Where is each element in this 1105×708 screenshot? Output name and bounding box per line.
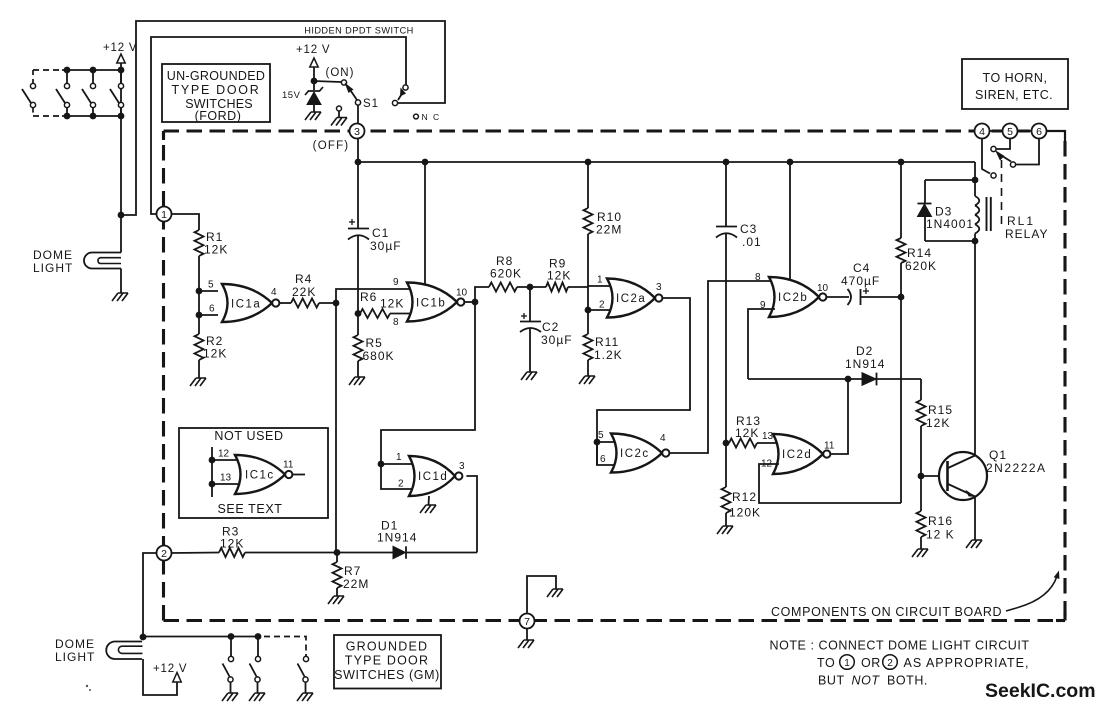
svg-text:3: 3 — [459, 461, 465, 472]
DPDT pole-2 blade — [398, 88, 406, 101]
svg-text:5: 5 — [208, 280, 214, 291]
svg-text:12K: 12K — [203, 347, 227, 361]
wire lamp2 to +12V — [143, 659, 177, 695]
svg-text:5: 5 — [598, 430, 604, 441]
label S1 — [363, 98, 379, 110]
wire bus corner to coil — [974, 162, 976, 180]
note line 3 — [818, 674, 928, 688]
wire R5 to ground — [357, 361, 359, 377]
label pin 10 IC2b — [817, 283, 829, 294]
wire pin13 stub — [212, 483, 244, 485]
junction dots bus bottom — [64, 113, 125, 120]
wire to ON contact — [314, 81, 341, 82]
svg-text:12: 12 — [218, 449, 230, 460]
wire IC1d out to D1 — [466, 476, 477, 553]
wire pin5 stub — [597, 441, 620, 443]
wire to DPDT outer run — [121, 21, 445, 215]
door switch GM-1 — [223, 637, 234, 694]
svg-text:IC2c: IC2c — [620, 448, 650, 460]
svg-text:RELAY: RELAY — [1005, 227, 1048, 241]
capacitor C2 — [520, 287, 541, 372]
svg-text:NOT: NOT — [852, 674, 881, 688]
ground R2 — [190, 378, 206, 386]
relay blade — [995, 150, 1011, 162]
DPDT pole-2 top contact — [403, 85, 408, 90]
svg-text:SIREN, ETC.: SIREN, ETC. — [975, 88, 1053, 102]
junction dot pin5 — [196, 288, 203, 295]
label NOT USED — [214, 429, 283, 443]
transistor Q1 — [939, 452, 987, 500]
svg-text:4: 4 — [271, 287, 277, 298]
label C4 470uF — [841, 261, 880, 288]
svg-text:RL1: RL1 — [1007, 214, 1035, 228]
wire R6node to R5 — [357, 314, 359, 336]
svg-text:4: 4 — [660, 433, 666, 444]
label SEE TEXT — [217, 502, 282, 516]
label 15V — [282, 90, 301, 101]
resistor R1 — [195, 230, 204, 256]
wire IC1b out up — [475, 287, 489, 302]
svg-text:R12: R12 — [732, 490, 757, 504]
svg-text:1: 1 — [161, 209, 167, 221]
ground Q1 emitter — [966, 540, 982, 548]
watermark SeekIC.com — [985, 680, 1096, 702]
label R1 12K — [204, 230, 228, 257]
label pin 5 IC2c — [598, 430, 604, 441]
door switch GM-3 — [298, 654, 309, 693]
wire R4node down to node2 line — [335, 303, 337, 553]
resistor R12 — [722, 487, 731, 513]
svg-text:IC1b: IC1b — [416, 298, 446, 310]
circuit board border left — [162, 131, 165, 621]
power +12V top left — [103, 42, 137, 215]
svg-text:LIGHT: LIGHT — [55, 650, 95, 664]
wire node4-5 — [990, 130, 1003, 132]
label RL1 RELAY — [1005, 214, 1048, 241]
svg-text:6: 6 — [209, 304, 215, 315]
junction dots on bus — [355, 159, 905, 166]
label D2 1N914 — [845, 344, 885, 371]
svg-text:470µF: 470µF — [841, 274, 880, 288]
junction dot bottom lamp — [140, 634, 147, 641]
wire Q1 emitter — [974, 497, 976, 541]
ground R16 — [912, 549, 928, 557]
label pin 1 IC1d — [396, 452, 402, 463]
wire IC1b output — [464, 301, 475, 303]
svg-text:C2: C2 — [542, 320, 559, 334]
op-amp gate IC1c — [235, 455, 292, 494]
svg-text:10: 10 — [817, 283, 829, 294]
svg-text:+12 V: +12 V — [103, 42, 137, 54]
svg-text:C1: C1 — [372, 226, 389, 240]
wire pin9 IC2b — [748, 309, 775, 379]
node 7 — [520, 614, 535, 629]
svg-text:30µF: 30µF — [370, 239, 402, 253]
wire door-switch bus top — [33, 69, 121, 71]
circuit board border top — [164, 129, 1047, 132]
diode D2 — [862, 373, 877, 386]
wire S1 to node 3 — [357, 105, 359, 124]
node 2 — [157, 546, 172, 561]
wire pin6 to R2 — [198, 315, 200, 334]
wire lamp to ground — [120, 269, 122, 294]
label pin 3 — [656, 282, 662, 293]
label TO HORN SIREN ETC — [975, 71, 1053, 102]
label pin 8 — [393, 317, 399, 328]
label pin 1 IC2a — [597, 275, 603, 286]
resistor R7 — [333, 562, 342, 588]
svg-text:COMPONENTS ON CIRCUIT BOARD: COMPONENTS ON CIRCUIT BOARD — [771, 605, 1002, 619]
svg-text:12K: 12K — [547, 269, 571, 283]
op-amp gate IC1b — [407, 283, 464, 322]
op-amp gate IC2c — [611, 434, 669, 473]
wire R11 ground — [587, 360, 589, 376]
label R15 12K — [926, 403, 953, 430]
label R2 12K — [203, 334, 227, 361]
label R4 22K — [292, 272, 316, 299]
wire pin 6 stub — [199, 314, 218, 316]
resistor R5 — [354, 335, 363, 361]
svg-text:12K: 12K — [380, 297, 404, 311]
svg-text:2: 2 — [599, 300, 605, 311]
wire blade contact to node6 — [1016, 139, 1039, 165]
note line 2 — [817, 655, 1029, 670]
svg-text:15V: 15V — [282, 90, 301, 101]
label R10 22M — [596, 210, 622, 237]
ground OFF contact — [331, 118, 347, 126]
junction dot IC1b out — [472, 299, 479, 306]
svg-text:8: 8 — [393, 317, 399, 328]
svg-text:DOME: DOME — [55, 637, 95, 651]
wire IC1a output — [279, 302, 291, 304]
dome light lamp top — [84, 253, 121, 269]
svg-text:1: 1 — [844, 658, 850, 669]
wire R12 ground — [725, 513, 727, 526]
wire pin 1 stub — [588, 285, 616, 287]
wire top bus — [358, 161, 975, 163]
svg-text:1N4001: 1N4001 — [926, 217, 974, 231]
svg-text:R5: R5 — [366, 336, 383, 350]
diode D1 — [393, 546, 406, 558]
svg-text:11: 11 — [824, 441, 835, 452]
svg-text:SEE TEXT: SEE TEXT — [217, 502, 282, 516]
wire base — [921, 475, 948, 477]
wire node2 to R3 — [172, 552, 220, 555]
wire pin1 stub — [381, 463, 418, 465]
wire R7 ground — [336, 588, 338, 596]
wire R8-R9 — [517, 286, 546, 288]
junction dot pin5 IC2c — [594, 439, 601, 446]
wire pin12 stub — [212, 459, 244, 461]
door switch SW-D — [110, 70, 124, 116]
svg-text:(FORD): (FORD) — [195, 109, 242, 123]
wire IC1b out down to IC1d — [381, 302, 475, 464]
svg-text:NOT USED: NOT USED — [214, 429, 283, 443]
ground GM-3 — [297, 693, 313, 701]
resistor R8 — [489, 283, 517, 292]
junction dot pin12 — [209, 457, 216, 464]
label pin 13 IC1c — [220, 473, 232, 484]
door switch SW-C — [82, 70, 96, 116]
junction dot R7 — [334, 549, 341, 556]
junction dot pin13 — [209, 481, 216, 488]
svg-text:120K: 120K — [729, 506, 761, 520]
wire bus drop to IC1b top — [424, 162, 426, 284]
svg-text:1: 1 — [597, 275, 603, 286]
ground IC1d — [420, 505, 436, 513]
ground GM-1 — [222, 693, 238, 701]
wire node7 up to ground — [527, 576, 556, 614]
label pin 12 IC1c — [218, 449, 230, 460]
ground GM-2 — [249, 693, 265, 701]
box GROUNDED TYPE DOOR SWITCHES — [334, 635, 441, 689]
label COMPONENTS ON CIRCUIT BOARD — [771, 605, 1002, 619]
svg-text:R15: R15 — [928, 403, 953, 417]
label pin 9 — [393, 277, 399, 288]
box TO HORN — [962, 59, 1068, 109]
svg-text:13: 13 — [220, 473, 232, 484]
label pin 4 IC2c — [660, 433, 666, 444]
wire IC1c input bar — [211, 447, 213, 497]
svg-text:1N914: 1N914 — [845, 357, 885, 371]
junction dot pin6 — [196, 312, 203, 319]
svg-text:11: 11 — [283, 460, 294, 471]
svg-text:TYPE DOOR: TYPE DOOR — [172, 83, 261, 97]
svg-text:8: 8 — [755, 272, 761, 283]
resistor R3 — [219, 548, 245, 557]
wire R2 to ground — [198, 360, 200, 378]
svg-text:12K: 12K — [735, 426, 759, 440]
wire R14 to C4 node and pin12 line — [900, 263, 902, 503]
node 4 — [975, 124, 990, 139]
svg-text:HIDDEN DPDT SWITCH: HIDDEN DPDT SWITCH — [304, 26, 414, 36]
junction dot coil bottom — [972, 238, 979, 245]
door switch SW-B — [56, 70, 70, 116]
svg-text:1N914: 1N914 — [377, 531, 417, 545]
junction dot D2 anode — [845, 376, 852, 383]
wire R13 to IC2d — [757, 442, 779, 444]
op-amp gate IC1d — [409, 456, 462, 496]
diode D3 — [918, 204, 932, 217]
junction dots GM bus — [228, 633, 262, 640]
wire node3 down — [357, 139, 359, 163]
wire pin12 feedback — [759, 464, 901, 503]
wire node to lamp — [120, 215, 122, 253]
door switch GM-2 — [250, 637, 261, 694]
box NOT USED — [179, 428, 328, 518]
S1 pivot contact — [355, 100, 360, 105]
label pin 6 IC2c — [600, 454, 606, 465]
switch S1 blade — [345, 83, 358, 101]
svg-text:2: 2 — [161, 548, 167, 560]
svg-text:R16: R16 — [928, 514, 953, 528]
label C1 30uF — [370, 226, 402, 253]
wire door-switch bus bottom — [33, 115, 121, 117]
junction dot pin2 IC2a — [585, 307, 592, 314]
label C3 .01 — [740, 222, 762, 249]
svg-text:C3: C3 — [740, 222, 757, 236]
resistor R10 — [584, 208, 593, 234]
ground R5 — [349, 377, 365, 385]
ground zener — [305, 112, 321, 120]
circuit board border top-right solid — [1046, 131, 1065, 141]
svg-text:DOME: DOME — [33, 248, 73, 262]
wire D3 upper — [924, 180, 926, 204]
note line 1 — [770, 639, 1030, 653]
node 3 — [350, 124, 365, 139]
wire D2 to R15 — [920, 379, 922, 400]
label pin 12 — [761, 459, 773, 470]
svg-text:3: 3 — [656, 282, 662, 293]
contact (ON) — [341, 80, 346, 85]
wire base to R16 — [920, 476, 922, 511]
resistor R11 — [584, 334, 593, 360]
wire R9 to IC2a — [568, 286, 588, 288]
svg-text:IC1a: IC1a — [231, 299, 261, 311]
label R7 22M — [343, 564, 369, 591]
svg-text:IC2b: IC2b — [778, 292, 808, 304]
label R12 120K — [729, 490, 761, 520]
wire D2 line — [748, 378, 921, 380]
svg-text:IC2d: IC2d — [782, 449, 812, 461]
svg-text:22K: 22K — [292, 285, 316, 299]
svg-text:22M: 22M — [343, 577, 369, 591]
svg-text:3: 3 — [354, 126, 360, 138]
resistor R14 — [897, 238, 906, 263]
contact NC — [414, 114, 419, 119]
resistor R2 — [195, 334, 204, 360]
svg-text:Q1: Q1 — [989, 448, 1007, 462]
svg-text:BOTH.: BOTH. — [887, 674, 928, 688]
wire R13 to R12 — [725, 443, 727, 487]
junction node dome-light feed — [118, 212, 125, 219]
wire bus drop to IC2b top — [789, 162, 791, 280]
junction dot IC1d pin1 — [378, 461, 385, 468]
label pin 13 — [762, 431, 774, 442]
label pin 5 — [208, 280, 214, 291]
label DOME LIGHT bottom — [55, 637, 95, 664]
resistor R16 — [917, 511, 926, 537]
label pin 6 — [209, 304, 215, 315]
op-amp gate IC2b — [769, 277, 826, 317]
label R16 12K — [926, 514, 955, 542]
wire Q1 collector — [974, 240, 976, 456]
wire R16 ground — [920, 537, 922, 549]
svg-text:5: 5 — [1007, 126, 1013, 138]
svg-text:6: 6 — [600, 454, 606, 465]
svg-text:10: 10 — [456, 288, 468, 299]
label GROUNDED TYPE DOOR SWITCHES (GM) — [334, 640, 440, 683]
wire C1 to R6 node — [357, 236, 359, 314]
label pin 10 — [456, 288, 468, 299]
wire IC2b out to C4 — [826, 296, 849, 298]
label Q1 2N2222A — [986, 448, 1047, 475]
wire pin9 from R4 node — [336, 289, 413, 303]
wire node4 to pole — [982, 139, 990, 174]
label C2 30uF — [541, 320, 573, 347]
op-amp gate IC1a — [222, 284, 279, 322]
svg-text:IC1d: IC1d — [418, 471, 448, 483]
svg-text:TYPE DOOR: TYPE DOOR — [345, 654, 429, 668]
label R8 620K — [490, 254, 522, 281]
ground node7 outer — [518, 640, 534, 648]
wire pin2 wrap — [381, 464, 418, 489]
wire NO to node5 — [996, 139, 1010, 150]
box UN-GROUNDED — [162, 64, 270, 122]
label pin 3 IC1d — [459, 461, 465, 472]
node 6 — [1032, 124, 1047, 139]
svg-text:R4: R4 — [295, 272, 312, 286]
svg-text:AS APPROPRIATE,: AS APPROPRIATE, — [904, 656, 1030, 670]
junction dot C2 tap — [527, 284, 534, 291]
wire IC2a out to IC2c — [597, 298, 690, 465]
svg-text:2: 2 — [398, 479, 404, 490]
relay coil RL1 — [975, 180, 979, 241]
wire R4 to junction — [319, 302, 336, 304]
wire D3 lower — [924, 217, 926, 242]
ground C2 — [521, 372, 537, 380]
arrow to board — [1006, 571, 1059, 612]
svg-text:BUT: BUT — [818, 674, 845, 688]
svg-text:C4: C4 — [853, 261, 870, 275]
svg-text:SWITCHES (GM): SWITCHES (GM) — [334, 668, 440, 682]
node 5 — [1003, 124, 1018, 139]
junction dot zener — [311, 78, 318, 85]
wire node2 left down — [143, 553, 157, 637]
label pin 4 — [271, 287, 277, 298]
svg-text:13: 13 — [762, 431, 774, 442]
label pin 9 IC2b — [760, 300, 766, 311]
svg-text:GROUNDED: GROUNDED — [346, 640, 429, 654]
svg-text:SeekIC.com: SeekIC.com — [985, 680, 1096, 702]
label pin 11 IC1c — [283, 460, 294, 471]
label NC — [422, 112, 441, 122]
ground lamp top — [112, 293, 128, 301]
power +12V bottom — [153, 663, 187, 682]
svg-text:OR: OR — [861, 656, 881, 670]
circuit board border right — [1063, 141, 1066, 621]
node 1 — [157, 207, 172, 222]
label DOME LIGHT top — [33, 248, 73, 275]
svg-text:TO: TO — [817, 656, 835, 670]
contact (OFF) grounded — [337, 106, 342, 118]
wire R10 to pins — [587, 234, 589, 334]
svg-text:(OFF): (OFF) — [313, 140, 350, 152]
wire C3 down — [725, 234, 727, 443]
junction dot coil top — [972, 177, 979, 184]
svg-text:TO HORN,: TO HORN, — [983, 71, 1048, 85]
svg-text:R6: R6 — [360, 290, 377, 304]
svg-text:12 K: 12 K — [926, 528, 955, 542]
ground R11 — [579, 376, 595, 384]
resistor R14 wire top — [900, 162, 902, 238]
wire IC1c output stub — [292, 474, 305, 476]
wire node to R7 — [336, 553, 338, 563]
resistor R13 — [729, 439, 757, 448]
label R13 12K — [735, 414, 761, 440]
label pin 2 IC2a — [599, 300, 605, 311]
wire to DPDT inner run — [151, 37, 406, 214]
ground R12 — [717, 526, 733, 534]
svg-text:4: 4 — [979, 126, 985, 138]
svg-text:680K: 680K — [363, 349, 395, 363]
svg-text:IC2a: IC2a — [616, 293, 646, 305]
label R6 12K — [360, 290, 404, 311]
ground R7 — [328, 596, 344, 604]
relay NO contact — [991, 146, 996, 151]
zener diode 15V — [305, 81, 323, 112]
svg-text:D2: D2 — [856, 344, 873, 358]
